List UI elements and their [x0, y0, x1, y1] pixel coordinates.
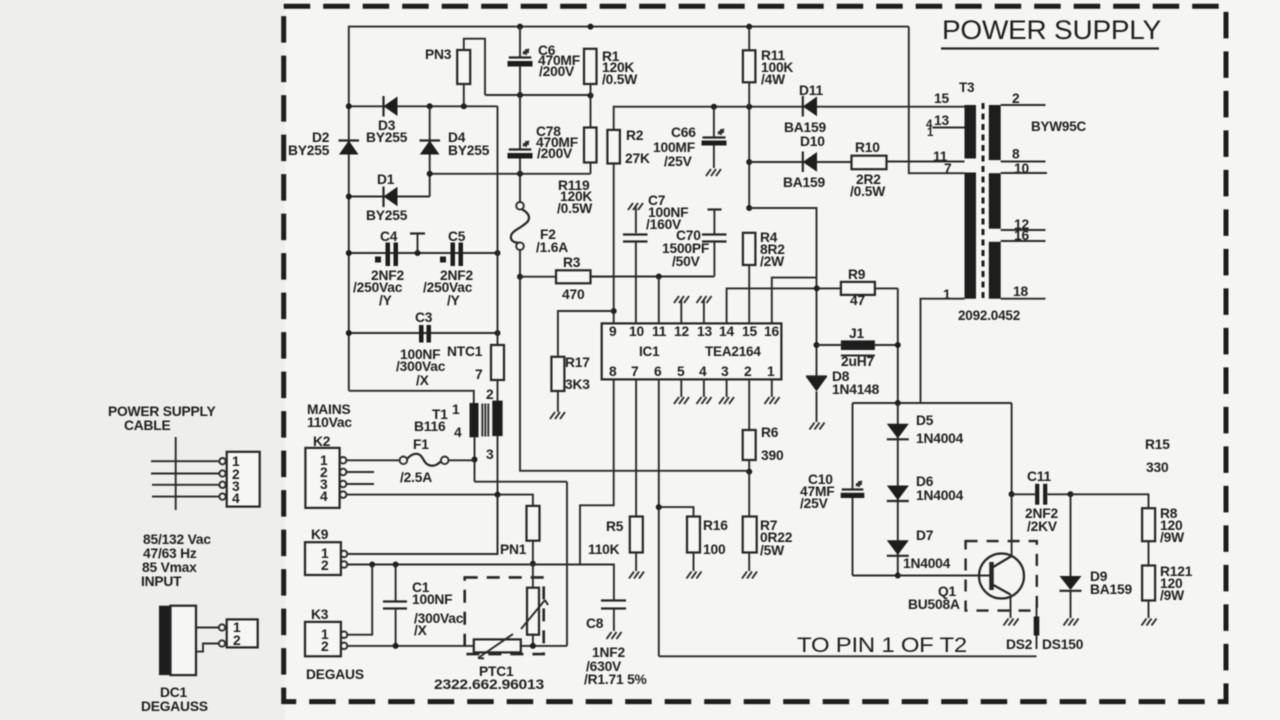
capacitor C11: [1012, 484, 1071, 505]
wire T3 pin16 stub: [1001, 240, 1046, 242]
wire pin7 column to R5: [635, 379, 637, 516]
wire D9 ground stub: [1064, 591, 1079, 626]
fuse F2: [511, 174, 529, 277]
svg-text:C66: C66: [671, 125, 696, 140]
wire PTC vertical bottom: [532, 635, 534, 646]
capacitor C10: [841, 481, 865, 576]
diode D7: [887, 540, 909, 556]
transformer T1 core lines: [482, 404, 488, 437]
svg-text:K9: K9: [311, 527, 329, 542]
svg-text:4: 4: [699, 364, 707, 379]
pin circle DC1-2: [219, 640, 225, 646]
wire K3 rail corner up to T1 jog: [566, 482, 568, 646]
ground R17: [550, 412, 565, 419]
node rail / R17 branch: [611, 308, 617, 314]
svg-text:CABLE: CABLE: [124, 418, 171, 433]
node rail / pin11 column: [656, 274, 662, 280]
svg-text:1N4004: 1N4004: [916, 431, 964, 446]
wire base line to Q1: [898, 575, 991, 577]
wire long rail F2 to R6 node: [520, 277, 749, 471]
svg-text:R10: R10: [855, 140, 880, 155]
wire top rail corner down to T3 pin7: [909, 27, 965, 174]
node R1 bottom: [588, 93, 594, 99]
svg-text:390: 390: [761, 448, 784, 463]
wire T1 secondary column down: [497, 436, 499, 553]
svg-text:INPUT: INPUT: [141, 574, 182, 589]
svg-text:/25V: /25V: [664, 154, 693, 169]
svg-text:/9W: /9W: [1160, 588, 1185, 603]
wire DC1 lead 1: [196, 627, 219, 629]
wire pin4 ground stub: [697, 379, 712, 404]
label 2uH7 underline: [841, 355, 875, 357]
svg-text:8: 8: [609, 364, 617, 379]
svg-text:/1.6A: /1.6A: [536, 240, 568, 255]
node rail / C66: [711, 104, 717, 110]
wire R4 node to J1 column: [749, 208, 816, 278]
svg-text:85 Vmax: 85 Vmax: [142, 560, 197, 575]
svg-text:NTC1: NTC1: [447, 344, 483, 359]
resistor R6: [743, 430, 756, 460]
svg-text:5: 5: [677, 364, 685, 379]
svg-text:/0.5W: /0.5W: [850, 184, 886, 199]
svg-text:PN1: PN1: [500, 542, 527, 557]
svg-text:BY255: BY255: [448, 143, 490, 158]
svg-text:DS2: DS2: [1006, 637, 1033, 652]
wire C10 bottom to base node: [853, 575, 898, 577]
node K9 rail / C1: [393, 562, 399, 568]
wire T3 pin13 stub: [933, 127, 965, 129]
svg-text:2092.0452: 2092.0452: [958, 308, 1020, 323]
wire R16 ground stub: [687, 553, 702, 579]
node collector / C11: [1009, 491, 1015, 497]
node K9 rail / K3 pin1: [369, 562, 375, 568]
svg-text:/Y: /Y: [447, 293, 460, 308]
svg-text:1: 1: [767, 364, 775, 379]
svg-text:/X: /X: [416, 373, 430, 388]
svg-text:R2: R2: [626, 128, 644, 143]
wire R119 bottom stub: [590, 163, 592, 174]
svg-text:7: 7: [944, 161, 952, 176]
node R11 / D10 wire: [746, 159, 752, 165]
svg-text:R5: R5: [606, 519, 624, 534]
node C4 rail right: [495, 250, 501, 256]
svg-text:7: 7: [631, 364, 639, 379]
svg-text:110Vac: 110Vac: [307, 415, 352, 430]
node R4 top junction: [746, 205, 752, 211]
wire collector into Q1: [1011, 494, 1013, 556]
resistor R17: [551, 357, 564, 391]
svg-text:DS150: DS150: [1042, 637, 1084, 652]
wire F1 to T1 junction: [449, 459, 475, 461]
wire D9 column: [1070, 494, 1072, 576]
svg-text:330: 330: [1146, 460, 1169, 475]
svg-text:9: 9: [609, 324, 617, 339]
svg-text:110K: 110K: [588, 542, 620, 557]
node mid rail / D4: [427, 171, 433, 177]
svg-text:F1: F1: [413, 437, 429, 452]
node top rail / R11 column: [746, 24, 752, 30]
pin circle K3-1: [341, 631, 348, 638]
capacitor C7: [623, 235, 648, 324]
diode D10: [803, 152, 817, 173]
chassis stub between C4 and C5: [410, 234, 425, 254]
node D5 top: [895, 400, 901, 406]
svg-text:B116: B116: [414, 419, 446, 434]
svg-text:85/132 Vac: 85/132 Vac: [143, 532, 211, 547]
degauss coil DC1 body: [171, 606, 197, 675]
node bridge top / PN3: [461, 103, 467, 109]
svg-text:BYW95C: BYW95C: [1031, 119, 1087, 134]
wire K2 pin3 stub: [347, 483, 375, 485]
svg-text:R17: R17: [565, 355, 590, 370]
node J1 left: [814, 342, 820, 348]
chassis symbol above pin13: [697, 296, 712, 323]
svg-text:C8: C8: [586, 616, 604, 631]
svg-text:2: 2: [486, 387, 494, 402]
resistor R10 (horizontal): [852, 156, 887, 170]
svg-text:/Y: /Y: [379, 293, 392, 308]
svg-text:/0.5W: /0.5W: [602, 72, 638, 87]
svg-text:K2: K2: [313, 434, 331, 449]
pin circle K3-2: [341, 643, 348, 650]
svg-text:13: 13: [934, 113, 949, 128]
svg-text:1NF2: 1NF2: [592, 645, 625, 660]
resistor R3 (horizontal): [520, 270, 613, 283]
connector box degauss: [227, 619, 258, 647]
transformer T3 secondary bar 3: [989, 242, 1001, 299]
wire K9 pin1 up to K2 pin4 node: [347, 495, 497, 554]
wire feedback rail R3 to C70: [591, 276, 714, 278]
resistor NTC1: [491, 345, 504, 380]
wire PN3 bottom: [463, 84, 465, 106]
wire R10 right to T3 pin11: [887, 161, 965, 163]
wire pin14 column: [727, 288, 817, 323]
pin circle K9-2: [341, 561, 348, 568]
svg-text:C3: C3: [415, 310, 433, 325]
svg-text:2uH7: 2uH7: [841, 354, 874, 369]
svg-text:/250Vac: /250Vac: [353, 280, 403, 295]
wire PN1 bottom: [532, 541, 534, 564]
thermistor PTC vertical: [521, 588, 548, 635]
diode D3: [384, 96, 398, 117]
wire cable lead 4: [152, 496, 220, 498]
svg-text:1: 1: [943, 287, 951, 302]
svg-text:DEGAUS: DEGAUS: [306, 667, 364, 682]
wire D5-D7 chain column: [897, 403, 899, 576]
svg-text:/0.5W: /0.5W: [557, 201, 593, 216]
resistor R2: [607, 130, 620, 164]
svg-text:D5: D5: [916, 413, 934, 428]
wire left main vertical: [348, 106, 350, 391]
wire R7 ground stub: [742, 553, 757, 579]
node C1 bottom: [393, 643, 399, 649]
wire R7 top: [748, 472, 750, 517]
node top rail / C6 column: [517, 24, 523, 30]
capacitor C70: [702, 235, 727, 277]
node pin6 / R16 branch: [656, 504, 662, 510]
node C6 rail: [517, 92, 523, 98]
capacitor C8: [601, 601, 626, 640]
wire C6 bottom rail: [485, 94, 591, 96]
svg-text:D7: D7: [916, 528, 934, 543]
svg-text:PN3: PN3: [425, 47, 452, 62]
svg-text:12: 12: [674, 324, 689, 339]
wire snubber top rail C10 to collector column: [853, 402, 1012, 404]
resistor R16: [687, 517, 700, 553]
wire cable lead 3: [152, 484, 220, 486]
wire pin3 ground stub: [719, 379, 734, 404]
wire R16 branch: [659, 507, 694, 516]
svg-text:7: 7: [475, 367, 483, 382]
capacitor C78: [508, 95, 533, 174]
wire DC1 lead 2: [196, 644, 219, 652]
wire R11 bottom to D10 node: [748, 82, 750, 208]
svg-text:BA159: BA159: [784, 120, 826, 135]
wire T1 primary bottom to F1 junction: [474, 437, 476, 481]
transistor Q1: [979, 554, 1024, 599]
node F1 / T1 junction: [472, 457, 478, 463]
node C3 rail left: [346, 330, 352, 336]
svg-text:/5W: /5W: [760, 543, 785, 558]
svg-text:R3: R3: [563, 255, 581, 270]
wire K2 pin2 stub: [347, 471, 375, 473]
wire T1 bottom jog to secondary column: [475, 481, 568, 483]
dashed box PTC1: [465, 577, 544, 654]
wire K3 pin1 up to K9 rail: [347, 565, 372, 635]
svg-text:/300Vac: /300Vac: [396, 359, 446, 374]
wire collector column from T3 pin1: [1011, 403, 1013, 494]
wire Q1 emitter to ground: [1004, 595, 1019, 626]
svg-text:2: 2: [1012, 91, 1020, 106]
svg-text:D11: D11: [799, 83, 823, 98]
degauss coil DC1 black bar: [159, 606, 171, 675]
wire C10 column: [852, 403, 854, 489]
svg-text:16: 16: [764, 324, 779, 339]
svg-text:/25V: /25V: [800, 496, 829, 511]
wire R121 ground stub: [1142, 601, 1157, 626]
svg-text:8: 8: [1012, 147, 1020, 162]
svg-text:/2KV: /2KV: [1027, 519, 1058, 534]
svg-text:1N4004: 1N4004: [916, 488, 964, 503]
wire left vertical bottom loop to T1 pin1: [349, 391, 474, 403]
wire pin8 column down: [580, 379, 614, 564]
chassis symbol above pin12: [674, 296, 689, 323]
resistor R4: [743, 233, 756, 265]
svg-text:3: 3: [486, 447, 494, 462]
chassis symbol above C7: [628, 203, 643, 233]
svg-text:/4W: /4W: [761, 72, 786, 87]
wire T3 pin8 stub: [1001, 161, 1046, 163]
node bridge top / D4 column: [427, 103, 433, 109]
svg-text:R9: R9: [848, 267, 866, 282]
wire 15V rail from R2 corner to T3 pin15: [614, 107, 965, 130]
wire K2 pin4 to PN1: [347, 495, 533, 506]
capacitor C3: [419, 325, 431, 343]
diode D11: [803, 96, 817, 117]
node C11 / D9: [1068, 491, 1074, 497]
svg-text:47: 47: [850, 293, 865, 308]
pin circle K9-1: [341, 551, 348, 558]
svg-text:15: 15: [934, 91, 949, 106]
dashed box around Q1: [966, 541, 1037, 611]
wire K9 pin2 rail: [347, 564, 580, 566]
wire pin16 column: [772, 278, 817, 324]
wire R9/J1 right column: [897, 288, 899, 403]
wire R11 top stub: [748, 27, 750, 51]
svg-text:47/63 Hz: 47/63 Hz: [143, 546, 197, 561]
resistor R7: [743, 517, 757, 553]
wire R4 bottom to pin15: [748, 265, 750, 323]
svg-text:T3: T3: [959, 80, 975, 95]
node base line junction: [895, 573, 901, 579]
svg-text:3: 3: [721, 364, 729, 379]
resistor R1: [584, 49, 597, 84]
svg-text:/9W: /9W: [1160, 530, 1185, 545]
resistor R11: [743, 50, 756, 82]
node C4 rail left: [346, 250, 352, 256]
thermistor PTC1 horizontal: [474, 634, 521, 659]
svg-text:BY255: BY255: [366, 130, 408, 145]
node top rail / R1 column: [588, 24, 594, 30]
svg-text:R15: R15: [1145, 437, 1170, 452]
wire pin8 jog to C8: [580, 565, 614, 600]
IC U1 TEA2164 box: [602, 323, 782, 379]
resistor R8: [1142, 508, 1155, 541]
wire T3 pin18 stub: [1001, 298, 1046, 300]
wire T3 pin10 stub: [1001, 172, 1047, 174]
svg-text:/2W: /2W: [760, 254, 785, 269]
wire D4 column: [429, 106, 431, 196]
svg-text:DC1: DC1: [160, 685, 188, 700]
resistor PN3: [457, 50, 470, 84]
node rail / R11 column: [746, 104, 752, 110]
wire pin2 column to R6: [748, 379, 750, 430]
wire R17 branch: [558, 311, 614, 357]
wire R1 bottom stub: [590, 84, 592, 128]
wire cable lead 2: [151, 473, 220, 475]
connector box cable: [227, 452, 260, 507]
node F2 / R3 junction: [517, 274, 523, 280]
pin circle K2-1: [340, 457, 347, 464]
svg-text:100MF: 100MF: [653, 140, 695, 155]
pin circle 3: [219, 482, 225, 488]
node J1 right: [895, 342, 901, 348]
svg-text:2: 2: [321, 639, 329, 654]
svg-text:14: 14: [719, 324, 734, 339]
wire R17 to ground: [557, 391, 559, 412]
wire top rail: [349, 27, 909, 107]
resistor R119: [584, 128, 597, 163]
wire T3 pin1: [921, 299, 965, 403]
diode D5: [887, 424, 909, 440]
pin circle 2: [219, 470, 225, 476]
capacitor C66: [702, 107, 727, 168]
wire cable lead 1: [151, 460, 220, 462]
svg-text:4: 4: [454, 425, 462, 440]
svg-text:470: 470: [562, 287, 585, 302]
wire bridge top rail: [349, 105, 498, 107]
wire C4/C5 rail: [349, 252, 498, 254]
connector box K2: [305, 448, 339, 508]
transformer T3 core dashed line: [982, 103, 985, 299]
capacitor C4: [375, 243, 398, 267]
wire pin6 column down: [658, 379, 660, 656]
wire K2 pin1 to F1: [347, 459, 400, 461]
svg-text:/X: /X: [414, 623, 428, 638]
transformer T3 secondary bar 2: [989, 173, 1001, 229]
svg-text:4: 4: [232, 491, 240, 506]
wire bridge mid rail: [430, 173, 591, 175]
svg-text:TEA2164: TEA2164: [705, 344, 761, 359]
diode D4: [420, 141, 441, 155]
svg-text:IC1: IC1: [639, 344, 660, 359]
fuse F1: [400, 454, 449, 466]
wire pin5 ground stub: [674, 379, 689, 404]
svg-text:1: 1: [927, 127, 934, 139]
spark gap DS2: [1034, 605, 1040, 649]
svg-text:1: 1: [452, 402, 460, 417]
svg-text:10: 10: [629, 324, 644, 339]
wire bridge lower rail: [349, 196, 430, 198]
ground C66: [706, 169, 721, 176]
svg-text:BA159: BA159: [1090, 582, 1132, 597]
connector box K3: [305, 622, 341, 656]
svg-text:POWER SUPPLY: POWER SUPPLY: [108, 404, 216, 419]
svg-text:2: 2: [744, 364, 752, 379]
node R6 / R7 / long wire: [746, 469, 752, 475]
svg-text:3K3: 3K3: [565, 377, 590, 392]
svg-text:J1: J1: [849, 326, 864, 341]
transformer T1 primary bar: [470, 403, 479, 437]
wire J1/D8 column: [816, 278, 818, 376]
wire R2 bottom to pin9 column: [613, 164, 615, 324]
transformer T3 primary bar upper: [965, 105, 977, 159]
svg-text:1N4004: 1N4004: [903, 556, 951, 571]
svg-text:D10: D10: [800, 134, 825, 149]
svg-text:18: 18: [1013, 284, 1028, 299]
svg-text:TO PIN 1 OF T2: TO PIN 1 OF T2: [797, 634, 967, 657]
pin circle K2-4: [340, 491, 347, 498]
diode D2: [339, 141, 360, 155]
svg-text:C4: C4: [380, 229, 398, 244]
title underline: [941, 47, 1159, 49]
pin circle K2-2: [340, 469, 347, 476]
svg-text:BA159: BA159: [783, 175, 825, 190]
node C3 rail right: [495, 330, 501, 336]
node PN1 / K9 rail: [530, 561, 536, 567]
node mid rail / C78: [517, 171, 523, 177]
svg-text:15: 15: [742, 324, 757, 339]
svg-text:K3: K3: [311, 607, 329, 622]
svg-text:100NF: 100NF: [412, 592, 452, 607]
svg-text:BU508A: BU508A: [908, 597, 960, 612]
capacitor C1: [383, 565, 407, 646]
svg-text:13: 13: [697, 324, 712, 339]
inductor J1: [817, 340, 898, 350]
svg-text:2: 2: [321, 558, 329, 573]
wire R6 bottom to node: [748, 460, 750, 472]
svg-text:4: 4: [320, 489, 328, 504]
svg-text:D1: D1: [377, 172, 395, 187]
wire D8 ground stub: [810, 391, 825, 429]
wire K3 pin2 rail to PTC: [347, 645, 567, 647]
resistor R9: [817, 282, 898, 295]
wire T3 pin12 stub: [1001, 229, 1046, 231]
connector box K9: [305, 542, 341, 575]
svg-text:/200V: /200V: [539, 64, 575, 79]
diode D8: [806, 377, 827, 392]
wire right column bridge to NTC1: [497, 106, 499, 345]
